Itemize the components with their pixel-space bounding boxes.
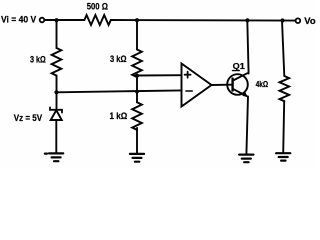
wire inverting input (zener node to op-amp, crosses middle branch) [57,90,182,92]
wire left branch upper [56,20,58,48]
zener diode Vz triangle [51,110,62,120]
wire 4k to ground [283,101,284,153]
wire top rail left (Vi terminal to 500-ohm) [44,19,84,21]
wire middle branch between inputs [136,76,138,103]
wire 1k to ground [136,128,138,154]
wire zener bottom lead [55,120,57,153]
output terminal Vo [296,18,301,23]
transistor Q1 emitter diagonal [233,89,247,96]
input terminal Vi [40,18,45,23]
svg-text:Q1: Q1 [233,61,246,71]
node junction at middle branch crossing [135,90,139,94]
wire emitter drop [246,97,248,155]
wire op-amp output to base [212,84,232,86]
svg-text:4kΩ: 4kΩ [256,80,269,89]
resistor 3k left [52,48,62,76]
svg-text:Vz = 5V: Vz = 5V [14,113,43,123]
op-amp U1 triangle [182,64,212,107]
svg-text:1 kΩ: 1 kΩ [110,111,128,121]
wire collector riser [247,20,248,73]
wire middle branch upper [136,20,138,49]
transistor Q1 emitter arrowhead [242,92,248,98]
wire 4k branch upper [282,21,284,77]
wire top rail right (500-ohm to Vo terminal) [111,19,296,22]
node junction at collector riser [245,18,249,22]
scan smear under Q1 [233,70,240,72]
svg-text:3 kΩ: 3 kΩ [110,54,127,64]
ground below zener [45,153,63,161]
op-amp plus sign [185,72,191,78]
node junction zener/inverting-input [54,90,58,94]
zener diode Vz cathode bar [50,107,62,112]
transistor Q1 base bar [231,79,233,91]
ground below 1k [130,154,144,162]
resistor 1k [132,102,142,130]
svg-text:500 Ω: 500 Ω [87,1,109,12]
wire non-inverting input [137,74,182,76]
svg-text:3 kΩ: 3 kΩ [30,54,46,64]
wire left branch to zener node [56,76,58,93]
node junction at 4k branch [280,18,284,22]
op-amp minus sign [186,90,192,92]
svg-text:Vi = 40 V: Vi = 40 V [1,15,37,25]
node junction at left branch [54,18,58,22]
node junction at middle branch [135,18,139,22]
ground below 4k [276,153,290,160]
ground below emitter [239,155,253,163]
resistor 4k [279,76,289,101]
wire zener top lead [56,92,58,110]
transistor Q1 collector diagonal [233,73,248,80]
resistor 500 ohm [84,15,110,25]
svg-text:Vo: Vo [304,16,316,26]
resistor 3k middle [132,50,142,78]
transistor Q1 circle [227,74,248,95]
node junction divider (to non-inverting input) [135,74,139,78]
